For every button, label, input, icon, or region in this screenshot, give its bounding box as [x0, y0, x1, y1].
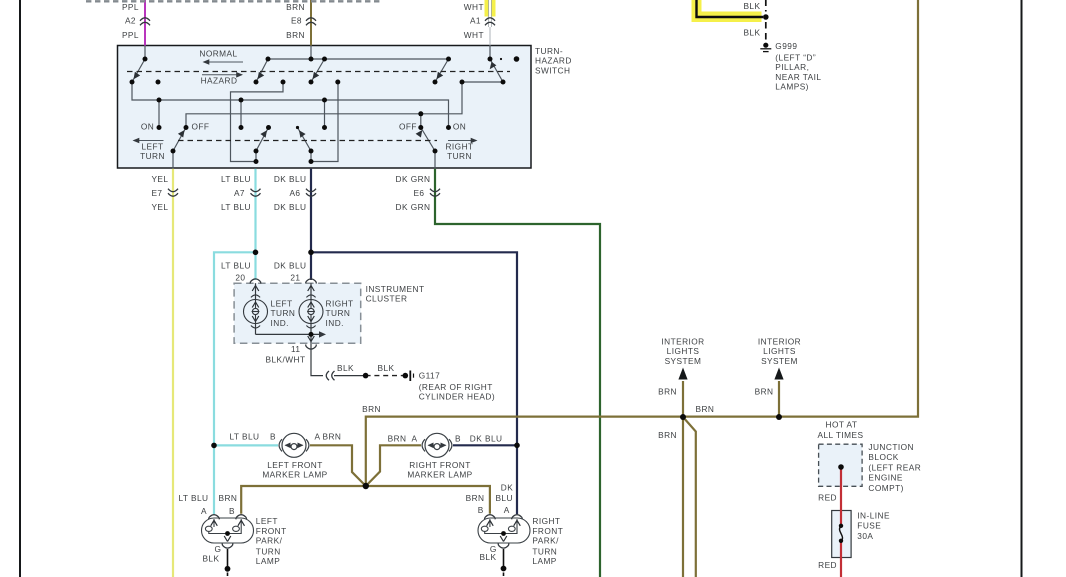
svg-text:A: A	[201, 506, 207, 516]
svg-text:LT BLU: LT BLU	[221, 202, 251, 212]
svg-text:BLK: BLK	[743, 1, 760, 11]
svg-text:(LEFT REAR: (LEFT REAR	[868, 462, 921, 472]
svg-text:(LEFT “D”: (LEFT “D”	[775, 53, 816, 63]
svg-text:G999: G999	[775, 41, 797, 51]
svg-text:DK GRN: DK GRN	[396, 174, 431, 184]
svg-text:LEFT FRONT: LEFT FRONT	[267, 460, 323, 470]
svg-text:A6: A6	[289, 188, 300, 198]
svg-text:BRN: BRN	[362, 404, 381, 414]
svg-text:TURN-: TURN-	[535, 46, 563, 56]
svg-text:LAMP: LAMP	[532, 556, 556, 566]
svg-text:B: B	[478, 505, 484, 515]
svg-text:BRN: BRN	[658, 430, 677, 440]
svg-text:A: A	[504, 505, 510, 515]
svg-text:RIGHT FRONT: RIGHT FRONT	[409, 460, 471, 470]
svg-text:G117: G117	[419, 371, 440, 381]
svg-text:CYLINDER HEAD): CYLINDER HEAD)	[419, 392, 495, 402]
svg-text:OFF: OFF	[399, 122, 417, 132]
svg-text:E7: E7	[151, 188, 162, 198]
svg-text:LT BLU: LT BLU	[229, 432, 259, 442]
svg-text:DK GRN: DK GRN	[396, 202, 431, 212]
svg-text:E8: E8	[291, 16, 302, 26]
svg-text:LT BLU: LT BLU	[178, 493, 208, 503]
svg-text:BRN: BRN	[286, 2, 305, 12]
svg-text:PPL: PPL	[122, 30, 139, 40]
svg-text:TURN: TURN	[140, 151, 165, 161]
svg-text:A: A	[315, 432, 321, 442]
svg-text:IN-LINE: IN-LINE	[857, 511, 890, 521]
svg-text:MARKER LAMP: MARKER LAMP	[262, 470, 327, 480]
svg-text:BRN: BRN	[696, 404, 715, 414]
svg-text:INSTRUMENT: INSTRUMENT	[366, 284, 425, 294]
svg-text:B: B	[455, 434, 461, 444]
svg-text:B: B	[270, 432, 276, 442]
svg-text:COMPT): COMPT)	[868, 483, 903, 493]
svg-text:LIGHTS: LIGHTS	[667, 346, 700, 356]
svg-text:DK BLU: DK BLU	[470, 434, 503, 444]
svg-text:NORMAL: NORMAL	[199, 49, 237, 59]
svg-text:INTERIOR: INTERIOR	[661, 337, 704, 347]
svg-text:RIGHT: RIGHT	[532, 516, 560, 526]
svg-text:JUNCTION: JUNCTION	[868, 442, 914, 452]
svg-text:BLK: BLK	[743, 28, 760, 38]
svg-text:YEL: YEL	[151, 202, 168, 212]
svg-text:HAZARD: HAZARD	[535, 56, 572, 66]
svg-text:BRN: BRN	[658, 387, 677, 397]
svg-text:TURN: TURN	[447, 151, 472, 161]
svg-text:SYSTEM: SYSTEM	[665, 356, 702, 366]
svg-text:(REAR OF RIGHT: (REAR OF RIGHT	[419, 382, 493, 392]
svg-text:TURN: TURN	[256, 546, 281, 556]
svg-text:BRN: BRN	[388, 434, 407, 444]
svg-text:LT BLU: LT BLU	[221, 174, 251, 184]
svg-text:PPL: PPL	[122, 2, 139, 12]
svg-text:NEAR TAIL: NEAR TAIL	[775, 72, 821, 82]
svg-text:ON: ON	[453, 122, 466, 132]
svg-text:WHT: WHT	[464, 30, 484, 40]
svg-text:LIGHTS: LIGHTS	[763, 346, 796, 356]
svg-text:DK BLU: DK BLU	[274, 174, 307, 184]
svg-text:A: A	[412, 434, 418, 444]
svg-text:PARK/: PARK/	[256, 536, 283, 546]
svg-text:HAZARD: HAZARD	[201, 76, 238, 86]
svg-text:FRONT: FRONT	[256, 526, 287, 536]
svg-text:ALL TIMES: ALL TIMES	[817, 430, 863, 440]
svg-text:BLOCK: BLOCK	[868, 452, 898, 462]
svg-text:PARK/: PARK/	[532, 536, 559, 546]
svg-text:OFF: OFF	[192, 122, 210, 132]
svg-text:LEFT: LEFT	[141, 142, 163, 152]
svg-text:PILLAR,: PILLAR,	[775, 62, 809, 72]
svg-text:LAMPS): LAMPS)	[775, 82, 809, 92]
svg-text:HOT AT: HOT AT	[826, 419, 858, 429]
svg-text:30A: 30A	[857, 531, 873, 541]
svg-text:BRN: BRN	[219, 493, 238, 503]
svg-text:21: 21	[290, 273, 300, 283]
svg-text:BRN: BRN	[323, 432, 342, 442]
svg-text:A2: A2	[125, 16, 136, 26]
svg-text:DK: DK	[501, 483, 513, 493]
svg-text:MARKER LAMP: MARKER LAMP	[407, 470, 472, 480]
svg-text:11: 11	[291, 344, 301, 354]
svg-text:FRONT: FRONT	[532, 526, 563, 536]
svg-text:ENGINE: ENGINE	[868, 473, 903, 483]
svg-text:TURN: TURN	[271, 308, 296, 318]
svg-text:RED: RED	[818, 560, 837, 570]
svg-text:YEL: YEL	[151, 174, 168, 184]
svg-text:RIGHT: RIGHT	[326, 299, 354, 309]
svg-text:B: B	[229, 506, 235, 516]
svg-text:BLK: BLK	[377, 363, 394, 373]
svg-text:BLK: BLK	[337, 363, 354, 373]
svg-text:INTERIOR: INTERIOR	[758, 337, 801, 347]
svg-text:RIGHT: RIGHT	[445, 142, 473, 152]
svg-text:BLK: BLK	[202, 554, 219, 564]
svg-text:BRN: BRN	[466, 493, 485, 503]
svg-text:FUSE: FUSE	[857, 521, 881, 531]
svg-text:IND.: IND.	[326, 318, 344, 328]
svg-text:BRN: BRN	[755, 387, 774, 397]
svg-text:20: 20	[235, 273, 245, 283]
svg-text:RED: RED	[818, 492, 837, 502]
svg-text:BRN: BRN	[286, 30, 305, 40]
svg-text:IND.: IND.	[271, 318, 289, 328]
svg-text:G: G	[215, 544, 222, 554]
svg-text:LT BLU: LT BLU	[221, 261, 251, 271]
svg-text:SWITCH: SWITCH	[535, 65, 570, 75]
svg-text:A1: A1	[470, 16, 481, 26]
svg-text:CLUSTER: CLUSTER	[366, 294, 408, 304]
svg-text:SYSTEM: SYSTEM	[761, 356, 798, 366]
svg-text:BLU: BLU	[495, 493, 513, 503]
svg-text:ON: ON	[141, 122, 154, 132]
svg-text:TURN: TURN	[532, 546, 557, 556]
svg-text:LEFT: LEFT	[271, 299, 293, 309]
svg-text:LEFT: LEFT	[256, 516, 278, 526]
svg-text:E6: E6	[413, 188, 424, 198]
svg-text:BLK: BLK	[479, 552, 496, 562]
svg-text:BLK/WHT: BLK/WHT	[265, 355, 305, 365]
svg-text:TURN: TURN	[326, 308, 351, 318]
svg-text:DK BLU: DK BLU	[274, 202, 307, 212]
svg-text:WHT: WHT	[464, 2, 484, 12]
svg-text:LAMP: LAMP	[256, 556, 280, 566]
svg-text:A7: A7	[234, 188, 245, 198]
svg-text:DK BLU: DK BLU	[274, 261, 307, 271]
